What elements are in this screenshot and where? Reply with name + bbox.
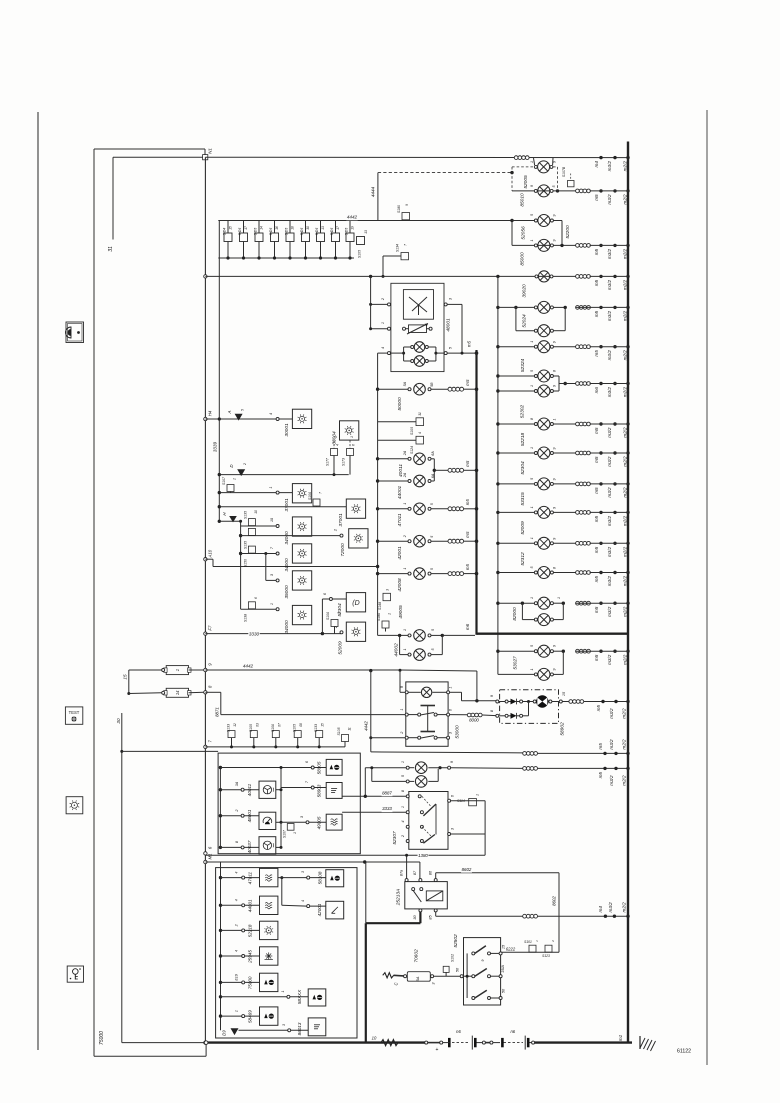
relay S/D5-17 — [330, 221, 340, 260]
svg-text:S105: S105 — [358, 250, 362, 258]
svg-text:15: 15 — [562, 691, 566, 696]
wire N1 top bus — [205, 156, 628, 158]
wire pin1 to 58902 — [450, 692, 462, 701]
svg-text:5: 5 — [530, 214, 534, 216]
node lamp pins — [534, 390, 553, 393]
node junction — [369, 275, 372, 278]
svg-text:40011: 40011 — [398, 464, 404, 477]
svg-text:m2/2: m2/2 — [622, 902, 627, 913]
relay S/D5-16 — [269, 221, 279, 260]
svg-text:S101: S101 — [524, 940, 532, 944]
node bus connector 7 — [204, 745, 207, 748]
fuse 1 — [164, 666, 191, 675]
node m row 52304 — [576, 451, 630, 467]
node m row 753 — [598, 739, 630, 755]
svg-text:58XXX: 58XXX — [297, 989, 302, 1004]
wire 52324 join — [553, 376, 575, 391]
marker D9 — [222, 1028, 239, 1035]
svg-text:m4: m4 — [594, 161, 599, 168]
connector S134-7 — [383, 244, 409, 277]
wire 52124 to bus — [590, 346, 628, 348]
svg-text:8: 8 — [530, 418, 534, 420]
wire box2 left bus — [220, 862, 222, 1030]
lamp 52304 — [496, 447, 575, 459]
node junction 53027 — [496, 650, 499, 653]
node junction 85010 — [556, 189, 559, 192]
svg-text:F7: F7 — [208, 625, 213, 631]
node junction — [239, 520, 242, 523]
wire 85000 row — [512, 244, 576, 246]
wire heavy ground left — [204, 1041, 425, 1043]
label 3333 — [382, 807, 393, 812]
svg-text:m3/2: m3/2 — [607, 194, 612, 205]
connector S101-1 — [524, 940, 539, 952]
node pin 6 — [329, 598, 332, 601]
fuse 70602 — [404, 972, 434, 982]
wire 4442 row 9 — [205, 669, 400, 671]
lamp 44001 row — [376, 475, 434, 487]
svg-text:m2/2: m2/2 — [623, 427, 628, 438]
lamp 53027a — [538, 645, 550, 657]
wire 82000b join — [553, 619, 563, 621]
svg-text:m3/2: m3/2 — [607, 427, 612, 438]
ground hatch end — [640, 1036, 656, 1051]
coil N1 row — [514, 156, 529, 160]
node junction 52324a — [496, 374, 499, 377]
box 53000 — [406, 682, 448, 746]
svg-text:m2/2: m2/2 — [623, 350, 628, 361]
svg-text:m2/2: m2/2 — [623, 654, 628, 665]
connector S107-2 — [222, 477, 237, 493]
svg-text:4: 4 — [235, 872, 239, 874]
svg-text:m5: m5 — [598, 743, 603, 750]
svg-text:85: 85 — [429, 915, 433, 920]
wire 30 branch — [122, 750, 218, 752]
lamp 40011 row — [376, 453, 431, 465]
node pin 1 — [276, 608, 279, 611]
wire to S102 — [434, 975, 461, 977]
wire 75000 frame bottom — [94, 1055, 206, 1057]
box 52502 — [464, 938, 501, 1005]
svg-text:S105: S105 — [337, 727, 341, 735]
svg-text:5: 5 — [431, 649, 435, 651]
svg-text:m6: m6 — [465, 623, 470, 630]
connector S106-7 — [308, 492, 323, 507]
svg-text:87: 87 — [413, 870, 417, 875]
node junction S107-2 row — [218, 491, 221, 494]
wire box1 right bus — [280, 768, 282, 848]
indicator 34000 — [292, 605, 311, 624]
switch 25945 — [260, 947, 278, 965]
wire row753 to bus — [538, 752, 628, 754]
svg-text:1: 1 — [269, 486, 273, 488]
svg-text:58903: 58903 — [316, 784, 321, 797]
indicator 34000 — [292, 544, 311, 563]
svg-text:4: 4 — [235, 950, 239, 952]
svg-text:3: 3 — [270, 573, 274, 576]
svg-text:8000: 8000 — [469, 718, 479, 723]
svg-text:n6: n6 — [510, 1029, 515, 1034]
svg-text:48001: 48001 — [446, 318, 452, 332]
svg-text:m3/2: m3/2 — [607, 515, 612, 526]
svg-text:1: 1 — [350, 436, 354, 438]
svg-text:m3/2: m3/2 — [607, 606, 612, 617]
node lamp 52056 pins — [534, 219, 553, 222]
node junction 52324b — [496, 389, 499, 392]
svg-text:S105: S105 — [249, 724, 253, 732]
svg-text:S134: S134 — [396, 244, 400, 252]
svg-text:1: 1 — [270, 603, 274, 605]
svg-text:D9: D9 — [222, 1030, 227, 1036]
svg-text:S177: S177 — [325, 458, 329, 466]
svg-text:42001: 42001 — [317, 903, 322, 916]
connector S106-3 — [326, 612, 341, 634]
svg-text:m5: m5 — [594, 310, 599, 317]
wire 52024b join — [553, 330, 565, 332]
svg-text:m2/2: m2/2 — [623, 576, 628, 587]
svg-text:34000: 34000 — [284, 531, 290, 545]
svg-text:9: 9 — [553, 341, 557, 343]
svg-text:1: 1 — [400, 708, 404, 710]
wire pair feed vertical — [364, 768, 366, 797]
svg-text:9: 9 — [553, 507, 557, 509]
svg-text:S/D5: S/D5 — [238, 228, 242, 236]
node bus connector 276.4 — [204, 275, 207, 278]
svg-text:S106: S106 — [271, 724, 275, 732]
node m row 53315 — [576, 482, 630, 498]
wire 52024 row2 — [516, 330, 536, 332]
svg-text:50: 50 — [456, 967, 460, 972]
svg-text:m5: m5 — [594, 194, 599, 201]
wire mid feeder vertical — [240, 521, 242, 609]
lamp 53027b — [538, 668, 550, 680]
lamp 47011 row — [376, 503, 448, 515]
wire frame corner to N1 — [204, 149, 206, 155]
svg-text:m5: m5 — [594, 427, 599, 434]
svg-text:6: 6 — [451, 794, 455, 797]
wire 52502 internal bus — [466, 953, 468, 998]
svg-text:m2/2: m2/2 — [622, 739, 627, 750]
wire 8871 branch — [205, 692, 405, 714]
svg-text:85010: 85010 — [520, 193, 526, 207]
node pin 15A — [499, 975, 502, 978]
wire 52502 feed — [463, 975, 472, 978]
svg-text:52324: 52324 — [520, 359, 526, 373]
svg-text:m5: m5 — [465, 563, 470, 570]
lamp 42001 row — [376, 535, 448, 547]
svg-text:1: 1 — [449, 686, 453, 688]
svg-text:8887: 8887 — [382, 790, 392, 795]
wire — [322, 598, 329, 600]
connector S102-1 — [443, 954, 454, 976]
wire dashed N1-branch — [378, 172, 512, 174]
svg-text:30: 30 — [306, 226, 310, 230]
svg-text:8: 8 — [401, 789, 405, 792]
node m4 junctions row N1 — [594, 156, 630, 171]
wire 40011 out — [276, 788, 311, 792]
svg-text:m5: m5 — [596, 705, 601, 712]
wire 75000 frame left — [93, 149, 95, 1056]
svg-text:52307: 52307 — [392, 831, 398, 845]
node lamp pins — [534, 375, 553, 378]
node junction S134 — [382, 275, 385, 278]
lamp 53000 internal — [405, 687, 449, 697]
svg-text:17: 17 — [336, 226, 340, 230]
relay S/D5-14 — [254, 221, 264, 260]
switch arm ign 1 — [472, 946, 499, 955]
wire 44002 left bracket — [399, 635, 401, 654]
svg-text:2: 2 — [235, 924, 239, 927]
wire inner line to 31 — [113, 156, 203, 158]
svg-text:30: 30 — [413, 915, 417, 920]
svg-text:m2/2: m2/2 — [622, 708, 627, 719]
wire 31 drop — [112, 157, 114, 239]
svg-text:42008: 42008 — [397, 578, 403, 592]
node junction — [398, 634, 401, 637]
svg-text:S107: S107 — [283, 830, 287, 838]
node bus connector H4 — [204, 417, 207, 420]
node junction — [510, 171, 513, 174]
svg-text:3: 3 — [300, 815, 304, 818]
svg-text:07: 07 — [277, 723, 281, 727]
node pin 2 — [388, 303, 391, 306]
node pin 5 — [444, 352, 447, 355]
node pin 7 — [311, 786, 314, 789]
wire M1 row — [205, 860, 420, 878]
svg-text:S107: S107 — [222, 477, 226, 485]
svg-text:1380: 1380 — [418, 853, 428, 858]
node bus connector 1042.6 — [204, 1041, 207, 1044]
svg-text:M1: M1 — [208, 853, 213, 860]
svg-text:2: 2 — [551, 940, 555, 943]
svg-text:3: 3 — [282, 1024, 286, 1026]
svg-text:1: 1 — [293, 832, 297, 834]
svg-text:5: 5 — [430, 568, 434, 570]
relay S/D5-17 — [238, 221, 248, 260]
svg-text:4: 4 — [381, 347, 385, 349]
svg-text:S135: S135 — [244, 511, 248, 519]
svg-text:9: 9 — [553, 240, 557, 242]
svg-text:m3/2: m3/2 — [607, 387, 612, 398]
svg-text:S124: S124 — [410, 446, 414, 454]
wire row 86013 — [239, 1029, 309, 1032]
svg-text:4: 4 — [235, 899, 239, 901]
svg-text:m2/2: m2/2 — [623, 194, 628, 205]
battery cell 1 — [448, 1036, 476, 1050]
connector S105-08 — [293, 723, 304, 748]
switch 58469 — [260, 1007, 278, 1025]
svg-text:52009: 52009 — [338, 641, 344, 655]
svg-text:9: 9 — [553, 448, 557, 450]
svg-text:m3/2: m3/2 — [607, 487, 612, 498]
svg-text:m3/2: m3/2 — [609, 775, 614, 786]
svg-text:53027: 53027 — [513, 656, 519, 670]
svg-text:S150: S150 — [244, 559, 248, 567]
indicator 35000 — [292, 571, 311, 590]
node junction D2 — [218, 473, 221, 476]
svg-text:1: 1 — [530, 240, 534, 242]
wire pin4 to A10 bus — [378, 352, 388, 354]
node pin 2 — [340, 534, 343, 537]
svg-text:S/D5: S/D5 — [285, 228, 289, 236]
wire 85000 to bus — [590, 244, 628, 246]
node pin 50 — [460, 975, 463, 978]
wire — [314, 787, 326, 789]
svg-text:9: 9 — [208, 663, 213, 666]
relay S/D4-15 — [223, 221, 233, 260]
node m row 768 — [598, 767, 630, 786]
lamp — [496, 567, 575, 579]
wire row 44001 — [219, 904, 260, 907]
svg-text:1: 1 — [334, 436, 338, 438]
relay S/D5-13 — [315, 221, 325, 260]
wire 4444 vertical — [377, 173, 379, 221]
node bus connector M1 — [204, 860, 207, 863]
svg-text:52218: 52218 — [248, 924, 253, 937]
wire 40011 bracket — [431, 459, 448, 481]
node pin 3A — [241, 788, 244, 791]
svg-text:m2/2: m2/2 — [623, 487, 628, 498]
svg-text:9: 9 — [553, 645, 557, 647]
svg-text:9: 9 — [530, 185, 534, 187]
svg-text:m5: m5 — [594, 515, 599, 522]
wire 52324b row — [498, 390, 536, 392]
icon lamp — [66, 797, 83, 814]
svg-text:1: 1 — [557, 597, 561, 599]
connector S123-2 — [542, 940, 555, 958]
wire 82000 left bracket — [521, 603, 523, 619]
wire 3330 row — [205, 633, 341, 635]
box switch unit — [218, 753, 360, 854]
svg-text:44002: 44002 — [394, 643, 400, 657]
svg-text:6: 6 — [305, 760, 309, 763]
svg-text:m5: m5 — [594, 654, 599, 661]
node junction 52056 — [510, 219, 513, 222]
node m row 52024 — [576, 306, 630, 322]
svg-text:m5: m5 — [594, 576, 599, 583]
wire 85 to coil row — [436, 912, 523, 916]
wire 1380 row — [205, 854, 485, 856]
svg-text:5: 5 — [430, 536, 434, 538]
node m row 85010 — [576, 189, 630, 205]
svg-text:25945: 25945 — [248, 950, 253, 964]
svg-text:40037: 40037 — [247, 840, 252, 853]
node junction H4 — [218, 417, 221, 420]
svg-text:m2/2: m2/2 — [623, 310, 628, 321]
lamp 53315 — [496, 478, 575, 490]
svg-text:S105: S105 — [410, 427, 414, 435]
svg-text:S148: S148 — [378, 602, 382, 610]
svg-text:3: 3 — [301, 871, 305, 873]
svg-text:1: 1 — [235, 1010, 239, 1012]
lamp 52312 — [496, 537, 575, 549]
svg-text:4442: 4442 — [364, 721, 369, 731]
svg-text:1: 1 — [530, 385, 534, 387]
wire 35000 bracket — [264, 552, 277, 580]
wire pin2 row to coil row — [371, 738, 523, 753]
svg-text:S/D5: S/D5 — [269, 228, 273, 236]
svg-text:m4: m4 — [598, 906, 603, 913]
node pin 8 — [241, 846, 244, 849]
node junction 15 — [127, 692, 130, 695]
coil row 58902 — [562, 700, 628, 704]
svg-text:10: 10 — [270, 518, 274, 522]
wire fuse1 left — [129, 669, 165, 694]
wire 52024 bracket — [515, 307, 517, 330]
svg-text:70602: 70602 — [414, 949, 420, 963]
lamp 49005 row — [378, 630, 431, 642]
connector S114-1 — [457, 794, 479, 806]
node bus connector 6 — [204, 852, 207, 855]
svg-text:2: 2 — [381, 297, 385, 301]
indicator 58903 — [326, 783, 342, 799]
svg-text:82000: 82000 — [512, 607, 518, 621]
wire 8602 net — [436, 873, 559, 952]
box 48001 outer — [391, 283, 444, 371]
svg-text:m3/2: m3/2 — [607, 654, 612, 665]
node pin 1 — [276, 491, 279, 494]
connector S135-10 — [244, 510, 259, 526]
svg-text:2: 2 — [334, 625, 338, 629]
switch 48001 knob — [259, 812, 276, 829]
switch 75000 — [260, 973, 278, 991]
indicator 52009 — [346, 622, 365, 641]
wire fuse14 left — [129, 691, 165, 694]
svg-text:75000: 75000 — [99, 1031, 105, 1045]
indicator 49005 — [326, 814, 342, 830]
node pin 3 — [306, 821, 309, 824]
svg-text:52005: 52005 — [523, 175, 529, 189]
wire — [309, 821, 326, 823]
svg-text:m5: m5 — [594, 546, 599, 553]
svg-text:13: 13 — [321, 226, 325, 230]
label 8887 — [382, 791, 393, 796]
svg-text:49005: 49005 — [316, 816, 321, 829]
node pin 50b — [499, 997, 502, 1000]
svg-text:5B: 5B — [430, 382, 434, 387]
wire pin1 feed — [371, 328, 388, 330]
svg-text:m5: m5 — [594, 487, 599, 494]
switch 58XXX — [308, 989, 326, 1006]
switch 47011 — [260, 868, 278, 886]
node junction 34000b row — [239, 552, 242, 555]
svg-text:3A: 3A — [235, 781, 239, 786]
svg-text:8: 8 — [553, 370, 557, 372]
indicator 30001 — [292, 409, 311, 428]
svg-text:S186: S186 — [377, 613, 381, 621]
svg-text:5: 5 — [530, 370, 534, 372]
connector S124-4 — [378, 432, 424, 454]
lamp 52005 — [538, 161, 550, 173]
svg-text:C: C — [394, 982, 399, 986]
wire relay bottom bus — [218, 257, 354, 259]
node junction 52024 bracket — [514, 306, 517, 309]
svg-text:1: 1 — [535, 940, 539, 942]
svg-text:10: 10 — [254, 510, 258, 514]
connector S106-07 — [271, 723, 282, 748]
node connector 10 — [204, 1041, 208, 1045]
marker D-2 triangle — [237, 469, 245, 476]
svg-text:2: 2 — [334, 528, 338, 532]
svg-text:1: 1 — [403, 503, 407, 505]
node junction 85000 — [560, 244, 563, 247]
svg-text:m2/2: m2/2 — [623, 387, 628, 398]
svg-text:15: 15 — [321, 723, 325, 727]
svg-text:1: 1 — [281, 991, 285, 993]
node pin 3 — [444, 303, 447, 306]
lamp 44002 row — [400, 649, 443, 661]
wire 34000b row — [241, 553, 277, 555]
